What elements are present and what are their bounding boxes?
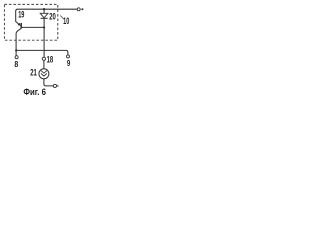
svg-text:21: 21 [30,68,37,78]
svg-text:8: 8 [14,60,18,69]
background [0,0,85,100]
terminal 8 circle [15,56,18,59]
terminal 9 circle [67,55,70,58]
diode D20 [40,9,48,27]
wire : diode branch down to terminal 18 [43,28,45,58]
svg-text:19: 19 [18,10,24,20]
wire : terminal 18 to current source [43,60,45,68]
svg-text:20: 20 [49,11,56,21]
current source I21 [39,69,49,79]
transistor Q19 emitter arrowhead [18,23,21,26]
terminal circle top right [77,8,80,11]
wire : current source to bottom terminal [44,79,53,86]
transistor Q19 base bar [20,23,22,29]
wire : collector lead down to terminal 8 [16,28,21,55]
node : collector / mid-rail junction [15,49,17,51]
wire : stub after bottom terminal [57,85,59,87]
node : base / diode junction [43,26,45,28]
svg-text:Фиг. 6: Фиг. 6 [23,86,46,97]
svg-text:18: 18 [47,54,54,64]
node : top rail / diode junction [43,8,45,10]
wire : emitter lead + top rail [16,9,77,25]
dot after top-right terminal [81,8,83,10]
terminal 18 circle [42,57,45,60]
bottom inline terminal circle [53,84,56,87]
wire : base lead [22,26,44,28]
wire : mid rail to terminal 9 [16,50,68,55]
leader line to label 10 [60,16,63,19]
dashed block 10 [4,4,57,40]
svg-text:10: 10 [63,16,69,26]
svg-text:9: 9 [67,59,71,68]
